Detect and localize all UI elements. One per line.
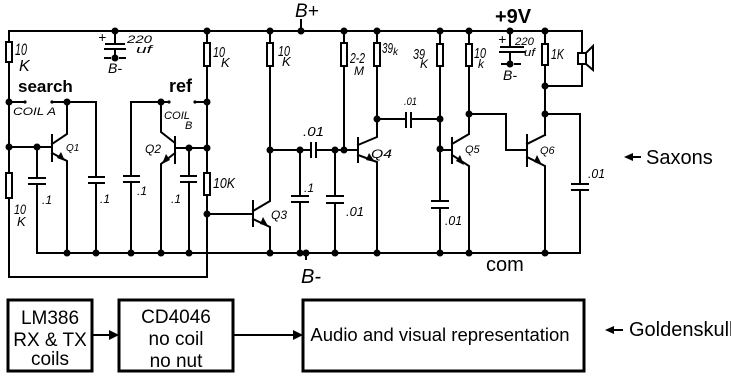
svg-text:M: M (354, 64, 364, 78)
wire R6 to coupling node (439, 66, 441, 119)
transistor Q2 collector (161, 102, 175, 143)
capacitor C2 .1 plates (89, 177, 104, 183)
node Q1 base C1 (34, 144, 41, 151)
svg-text:Saxons: Saxons (646, 147, 713, 169)
transistor Q1 emitter (52, 153, 67, 253)
capacitor C9 .01 plates (406, 113, 411, 127)
node rail C6 (297, 250, 304, 257)
capacitor C5 220uf plates (105, 44, 125, 49)
transistor Q4 emitter (358, 155, 377, 253)
node coil B right (204, 99, 211, 106)
node rail C3 (128, 250, 135, 257)
node rail Q4 emitter (374, 250, 381, 257)
wire Q2 base row (175, 147, 207, 149)
node C8 tap (332, 147, 339, 154)
node top rail R3 (267, 28, 274, 35)
capacitor C10 .01 plates (432, 201, 448, 208)
node rail Q6 emitter (542, 250, 549, 257)
svg-text:Q6: Q6 (540, 145, 556, 157)
svg-text:.01: .01 (445, 213, 462, 228)
svg-text:K: K (282, 54, 292, 69)
svg-text:K: K (420, 57, 429, 71)
capacitor C12 .01 plates (572, 184, 588, 190)
svg-text:uf: uf (136, 44, 154, 56)
resistor R2 10K (204, 43, 210, 66)
node coil B terminal 2 (193, 100, 196, 103)
capacitor C4 .1 plates (181, 176, 196, 182)
svg-text:CD4046: CD4046 (141, 307, 211, 328)
wire C7 to Q4 base (316, 149, 358, 151)
wire R2 top lead (206, 31, 208, 43)
capacitor C3 .1 bottom lead (130, 182, 132, 253)
transistor Q3 emitter (253, 219, 270, 253)
capacitor C11 220uf top lead (509, 31, 511, 45)
svg-text:.1: .1 (42, 193, 52, 207)
node coil A terminal 2 (50, 100, 53, 103)
svg-text:.1: .1 (137, 184, 147, 198)
svg-text:search: search (18, 77, 73, 96)
node rail B- terminal (303, 250, 310, 257)
node top rail C11 (507, 28, 514, 35)
wire feedback return bottom (9, 276, 207, 278)
capacitor C3 .1 top lead (130, 102, 132, 176)
node C11 bottom B- (507, 61, 514, 68)
capacitor C1 .1 top lead (36, 147, 38, 178)
wire R4 to coupling row (343, 66, 345, 150)
svg-text:Q5: Q5 (465, 144, 481, 156)
node top rail R5 (374, 28, 381, 35)
wire left rail upper (8, 31, 10, 42)
node Q2 base C4 (186, 145, 193, 152)
block CD4046 box (119, 300, 233, 371)
speaker SP1 body (578, 53, 586, 64)
capacitor C11 220uf bottom lead (509, 52, 511, 64)
wire coil B right stub (195, 101, 207, 103)
svg-text:.1: .1 (171, 192, 181, 206)
transistor Q4 collector (358, 119, 377, 145)
wire arrow box1 to box2 (92, 334, 111, 336)
svg-text:39: 39 (382, 40, 393, 57)
node Q2 base R9 (204, 145, 211, 152)
svg-text:10K: 10K (213, 175, 236, 192)
svg-text:B-: B- (503, 67, 517, 83)
wire R8 top lead (544, 31, 546, 44)
node C6 tap (297, 147, 304, 154)
transistor Q5 emitter (452, 155, 469, 253)
capacitor C6 .1 plates (292, 196, 308, 202)
svg-text:RX & TX: RX & TX (13, 330, 87, 351)
wire Q1 collector node to C2 (67, 101, 96, 103)
transistor Q2 emitter arrow (162, 154, 170, 164)
capacitor C5 minus ticks (104, 58, 521, 64)
capacitor C11 220uf plates (500, 47, 524, 52)
svg-text:K: K (221, 55, 231, 70)
node top rail R2 (204, 28, 211, 35)
svg-text:1K: 1K (551, 46, 565, 63)
capacitor C1 .1 plates (29, 178, 45, 184)
svg-text:B: B (185, 120, 192, 132)
svg-text:Q3: Q3 (271, 208, 287, 222)
capacitor C1 .1 bottom lead (36, 184, 38, 253)
wire coil B node to R9 (206, 148, 208, 173)
wire R2 to coil B (206, 66, 208, 148)
wire coil A right stub (52, 101, 67, 103)
capacitor C4 .1 top lead (188, 148, 190, 176)
block audio box (303, 300, 584, 371)
svg-text:K: K (17, 214, 27, 229)
capacitor C6 .1 top lead (299, 150, 301, 196)
wire bottom common rail (38, 252, 580, 254)
svg-text:.01: .01 (404, 96, 417, 108)
node top rail C5 (112, 28, 119, 35)
svg-text:+: + (98, 29, 106, 45)
wire R7 to Q5 collector (468, 66, 470, 114)
transistor Q6 collector (527, 135, 545, 144)
transistor Q4 emitter arrow (366, 153, 375, 162)
node C9 out (437, 116, 444, 123)
svg-text:Goldenskull: Goldenskull (629, 319, 731, 341)
wire R5 to Q4 collector (376, 66, 378, 119)
svg-text:.01: .01 (303, 124, 324, 139)
block LM386 box (8, 300, 92, 371)
node Q1 base rail (6, 144, 13, 151)
transistor Q3 emitter arrow (260, 217, 268, 226)
node C5 bottom B- (112, 55, 119, 62)
transistor Q2 bar (174, 137, 176, 163)
svg-text:+: + (498, 31, 506, 47)
wire speaker feed (581, 31, 583, 86)
svg-text:K: K (19, 58, 31, 75)
wire left rail middle (8, 62, 10, 173)
wire Q3 base row (207, 213, 253, 215)
emitter arrows (57, 152, 542, 226)
wire C9 to R6 column (411, 118, 440, 120)
node top rail R4 (341, 28, 348, 35)
wire jog to Q6 base (506, 149, 527, 151)
capacitor C5 220uf bottom lead (114, 49, 116, 58)
capacitor C8 .01 plates (327, 196, 343, 203)
svg-text:COIL A: COIL A (13, 106, 56, 118)
resistor R1 10K (6, 42, 12, 62)
svg-text:.1: .1 (100, 192, 110, 206)
block diagram (8, 300, 584, 371)
wire 1K to Q6 collector (544, 65, 546, 135)
capacitor C5 220uf top lead (114, 31, 116, 43)
capacitor C3 .1 plates (124, 176, 139, 182)
transistor Q3 collector (253, 150, 270, 211)
handwritten labels (13, 1, 605, 288)
svg-text:no coil: no coil (149, 329, 204, 350)
wire top supply rail B+ (9, 30, 582, 32)
node Q4 collector (374, 116, 381, 123)
capacitor C12 .01 top lead (579, 114, 581, 184)
capacitor C7 .01 plates (311, 143, 316, 157)
resistor R3 10K (267, 43, 273, 66)
wire coil B left stub (161, 101, 169, 103)
transistor Q6 bar (526, 135, 528, 166)
capacitor C12 .01 bottom lead (579, 190, 581, 253)
wire Q3 collector row to C7 (270, 149, 311, 151)
wire Q6 collector to C12 (545, 113, 580, 115)
wire R5 top lead (376, 31, 378, 43)
svg-text:10: 10 (15, 40, 27, 59)
node top rail R6 (437, 28, 444, 35)
node top rail R7 (466, 28, 473, 35)
wire Q5 base row (440, 149, 452, 151)
speaker SP1 cone (586, 46, 593, 70)
label Goldenskull (605, 319, 731, 341)
node Q2 collector / coil B left (158, 99, 165, 106)
svg-text:B-: B- (301, 266, 321, 288)
svg-text:no nut: no nut (150, 351, 204, 372)
wire Q3 base node down to feedback (206, 214, 208, 277)
resistor R8 1K (542, 44, 548, 65)
capacitor C2 .1 bottom lead (95, 183, 97, 253)
node Q3 base (204, 211, 211, 218)
node rail Q5 emitter (466, 250, 473, 257)
node rail C2 (93, 250, 100, 257)
node Q5 collector (466, 111, 473, 118)
transistor Q2 emitter (161, 153, 175, 253)
svg-text:+9V: +9V (495, 6, 532, 28)
resistor R10 10K (6, 173, 12, 198)
node rail Q3 emitter (267, 250, 274, 257)
node rail Q2 emitter (158, 250, 165, 257)
capacitor C6 .1 bottom lead (299, 202, 301, 253)
wire R9 to Q3 base node (206, 195, 208, 214)
transistor Q5 bar (451, 138, 453, 163)
wire R3 to Q3 collector node (269, 66, 271, 150)
wire left rail lower (8, 198, 10, 277)
svg-text:Q2: Q2 (145, 142, 161, 156)
typed labels (18, 6, 532, 276)
transistor Q1 bar (51, 135, 53, 161)
wire Q4 collector to C9 (377, 118, 406, 120)
svg-text:Q4: Q4 (371, 147, 392, 161)
transistor Q6 emitter (527, 157, 545, 253)
resistor R9 10K (204, 173, 210, 195)
svg-text:Audio and visual representatio: Audio and visual representation (310, 324, 569, 345)
svg-text:.01: .01 (346, 204, 364, 219)
arrowhead box1-box2 (109, 330, 119, 340)
wire Q5 collector to jog (469, 113, 506, 115)
capacitor C2 .1 top lead (95, 102, 97, 177)
node B+ terminal (298, 28, 305, 35)
node B+ stub (300, 20, 302, 28)
svg-text:com: com (486, 254, 524, 276)
transistor Q1 emitter arrow (57, 152, 65, 161)
wire R7 top lead (468, 31, 470, 44)
node B- stub bottom (305, 253, 307, 259)
node rail C4 (186, 250, 193, 257)
transistor Q6 emitter arrow (534, 155, 542, 165)
wire coil A left stub (9, 101, 25, 103)
svg-text:ref: ref (169, 76, 193, 96)
svg-text:k: k (478, 57, 485, 71)
node R4 tap (341, 147, 348, 154)
wire arrow box2 to box3 (234, 334, 295, 336)
node coil A right / Q1 collector (64, 99, 71, 106)
wire speaker return row (545, 85, 582, 87)
resistor R6 39K (437, 44, 443, 66)
transistor Q3 bar (252, 201, 254, 226)
wire coupling jog down (505, 114, 507, 150)
capacitor C8 .01 bottom lead (334, 203, 336, 253)
svg-text:coils: coils (31, 349, 69, 370)
node Q3 collector (267, 147, 274, 154)
resistor R5 39K (374, 43, 380, 66)
capacitor C10 .01 bottom lead (439, 208, 441, 253)
transistor Q5 emitter arrow (456, 155, 464, 165)
node rail Q1 emitter (64, 250, 71, 257)
arrowhead box2-box3 (293, 330, 303, 340)
transistor Q4 bar (357, 138, 359, 162)
wire C3 to Q2 collector node (131, 101, 161, 103)
svg-text:LM386: LM386 (21, 308, 79, 329)
transistor Q5 collector (452, 114, 469, 144)
svg-text:B-: B- (108, 60, 122, 76)
wire R6 top lead (439, 31, 441, 44)
resistor R7 10K (466, 44, 472, 66)
transistor Q1 collector (52, 102, 67, 144)
node rail C10 (437, 250, 444, 257)
node top rail 1K (542, 28, 549, 35)
svg-text:Q1: Q1 (66, 143, 79, 154)
wire Q1 base row (9, 146, 52, 148)
node coil B terminal 1 (167, 100, 170, 103)
svg-text:B+: B+ (295, 1, 319, 22)
wire R4 top lead (343, 31, 345, 43)
capacitor C8 .01 top lead (334, 150, 336, 196)
wire R3 top lead (269, 31, 271, 43)
node rail C8 (332, 250, 339, 257)
svg-text:uf: uf (524, 47, 536, 59)
svg-text:.01: .01 (588, 166, 605, 181)
label Saxons (624, 147, 713, 169)
node coil A terminal 1 (23, 100, 26, 103)
node C12 tap (542, 111, 549, 118)
svg-text:.1: .1 (304, 181, 314, 195)
wire coupling node to Q5 base node (439, 119, 441, 150)
capacitor C4 .1 bottom lead (188, 182, 190, 253)
node Q5 base (437, 146, 444, 153)
resistor R4 2-2M (341, 43, 347, 66)
node coil A left (6, 99, 13, 106)
node speaker return (542, 83, 549, 90)
capacitor C11 minus ticks (501, 63, 521, 65)
capacitor C10 .01 top lead (439, 150, 441, 201)
